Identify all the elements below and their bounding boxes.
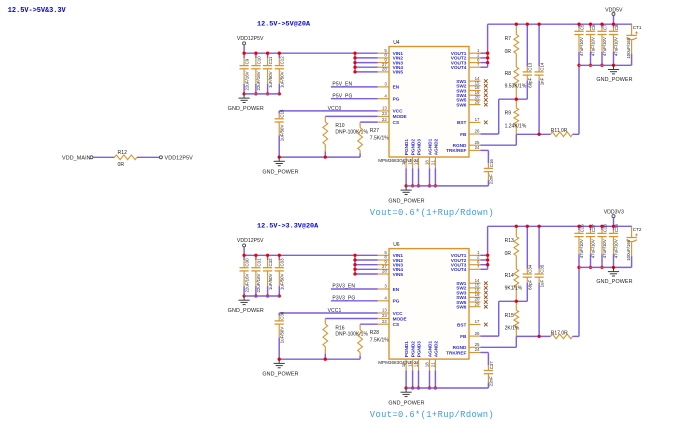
resistor R13 (515, 226, 517, 236)
svg-text:MODE: MODE (393, 316, 407, 321)
wire VCC1 net (279, 312, 378, 314)
svg-text:BST: BST (457, 120, 467, 125)
svg-text:2K/1%: 2K/1% (505, 326, 520, 332)
wire VOUT3 to bus (481, 264, 488, 266)
svg-text:VDD_MAIN: VDD_MAIN (62, 156, 91, 162)
wire agnd ground rail (406, 387, 488, 389)
pin 21 AGND2 of U4 (434, 157, 436, 168)
resistor R7 (515, 24, 517, 34)
pin 8 VIN2 of U4 (378, 57, 389, 59)
wire to VIN2 (355, 259, 378, 261)
svg-text:22nF: 22nF (489, 376, 494, 386)
pin 17 BST of U4 (469, 121, 481, 123)
pin 3 EN of U6 (378, 288, 389, 290)
junction VIN bus 1 (353, 52, 356, 55)
wire R11 to ground riser (573, 133, 579, 135)
wire VDD12P5V port to input rail (243, 45, 245, 53)
svg-text:100uF/16V: 100uF/16V (626, 239, 631, 261)
pin 12 PGND3 of U6 (418, 359, 420, 370)
pin 26 FB of U6 (469, 335, 481, 337)
svg-text:VIN5: VIN5 (393, 272, 404, 277)
resistor R16 (324, 319, 326, 324)
junction C28 bottom (600, 266, 603, 269)
pin 13 VCC of U6 (378, 312, 389, 314)
junction R10 bottom (324, 155, 327, 158)
svg-text:GND_POWER: GND_POWER (388, 198, 424, 204)
pin 9 VIN3 of U4 (378, 62, 389, 64)
capacitor C27 (590, 226, 592, 230)
wire VOUT3 to bus (481, 62, 488, 64)
svg-text:22: 22 (382, 117, 387, 122)
wire to VIN4 (355, 268, 378, 270)
svg-text:1nF: 1nF (539, 77, 544, 85)
svg-text:1uF/50V: 1uF/50V (280, 273, 285, 290)
junction C32 top (266, 254, 269, 257)
pin 5 VIN1 of U6 (378, 254, 389, 256)
junction C7 top (600, 23, 603, 26)
svg-text:C10: C10 (256, 56, 261, 65)
svg-text:C29: C29 (614, 224, 619, 233)
capacitor C14 (538, 24, 540, 66)
svg-text:AGND1: AGND1 (427, 340, 432, 357)
junction R16 bottom (324, 358, 327, 361)
svg-text:47uF/10V: 47uF/10V (602, 37, 607, 56)
pin 11 PGND2 of U6 (412, 359, 414, 370)
svg-text:47uF/10V: 47uF/10V (579, 239, 584, 258)
pin 28 VIN5 of U6 (378, 273, 389, 275)
junction VOUT bus (486, 254, 489, 257)
junction AGND2 ground (434, 184, 437, 187)
pin 28 VIN5 of U4 (378, 71, 389, 73)
junction C35 top (537, 225, 540, 228)
wire RGND to R9 bottom (481, 144, 517, 146)
svg-text:22uF/16V: 22uF/16V (256, 273, 261, 292)
pin 18 AGND1 of U6 (429, 359, 431, 370)
wire PGND2 to ground rail (412, 168, 414, 186)
capacitor C35 (538, 226, 540, 268)
ground vcc rail (278, 157, 280, 161)
svg-text:1.24K/1%: 1.24K/1% (505, 124, 527, 130)
svg-text:VDD12P5V: VDD12P5V (237, 238, 264, 244)
capacitor C34 (526, 226, 528, 268)
wire R17 to ground riser (573, 335, 579, 337)
capacitor C11 (267, 53, 269, 58)
pin 18 AGND1 of U4 (429, 157, 431, 168)
svg-text:0R: 0R (118, 162, 125, 168)
pin 8 VIN2 of U6 (378, 259, 389, 261)
svg-text:EN: EN (393, 85, 400, 90)
svg-text:26: 26 (475, 129, 480, 134)
wire PGND3 to ground rail (418, 168, 420, 186)
svg-text:VOUT4: VOUT4 (451, 267, 467, 272)
wire CS to R27 (360, 121, 378, 123)
svg-text:C13: C13 (528, 62, 533, 71)
capacitor C13 (526, 24, 528, 66)
junction AGND2 ground (434, 386, 437, 389)
capacitor CT2 (631, 226, 633, 237)
svg-text:VDD12P5V: VDD12P5V (237, 36, 264, 42)
port VDD5V (612, 13, 615, 16)
pin 20 SW5 of U4 (469, 99, 481, 101)
wire MODE to R16 (325, 318, 378, 320)
junction C11 top (266, 52, 269, 55)
wire to VIN5 (355, 273, 378, 275)
capacitor C15 (278, 111, 280, 114)
junction PGND2 ground (411, 386, 414, 389)
junction C9 bottom (242, 92, 245, 95)
svg-text:C16: C16 (489, 159, 494, 168)
svg-text:12: 12 (414, 362, 419, 367)
wire VIN bus vertical (354, 255, 356, 274)
svg-text:68pF: 68pF (528, 77, 533, 87)
svg-text:U6: U6 (393, 242, 400, 248)
svg-text:CT2: CT2 (633, 227, 642, 232)
svg-text:100uF/16V: 100uF/16V (626, 37, 631, 59)
junction VIN bus 5 (353, 70, 356, 73)
junction VOUT bus (486, 52, 489, 55)
svg-text:R27: R27 (370, 128, 379, 134)
svg-text:1uF/50V: 1uF/50V (268, 273, 273, 290)
svg-text:GND_POWER: GND_POWER (262, 372, 298, 378)
svg-text:PG: PG (393, 97, 400, 102)
pin 2 VOUT2 of U6 (469, 259, 481, 261)
svg-text:29: 29 (475, 301, 480, 306)
wire FB to riser (481, 133, 499, 135)
port VDD12P5V (R12 output) (159, 156, 162, 159)
pin 26 FB of U4 (469, 133, 481, 135)
wire R9 bottom drop (515, 336, 517, 347)
svg-text:12.5V->5V&3.3V: 12.5V->5V&3.3V (8, 7, 67, 15)
capacitor C16 (487, 150, 489, 163)
svg-text:22uF/16V: 22uF/16V (244, 71, 249, 90)
svg-text:17: 17 (475, 117, 480, 122)
junction C9 top (242, 52, 245, 55)
svg-text:C27: C27 (591, 224, 596, 233)
svg-text:R15: R15 (505, 313, 514, 319)
junction VIN bus 3 (353, 263, 356, 266)
svg-text:0R: 0R (505, 251, 512, 257)
junction VOUT bus (486, 61, 489, 64)
capacitor C12 (278, 53, 280, 58)
junction output gnd (612, 266, 615, 269)
svg-text:12.5V->3.3V@20A: 12.5V->3.3V@20A (257, 223, 319, 231)
wire to VIN3 (355, 62, 378, 64)
svg-text:AGND2: AGND2 (433, 138, 438, 155)
wire vcc ground rail (279, 358, 360, 360)
svg-text:47uF/10V: 47uF/10V (602, 239, 607, 258)
svg-text:7.5K/1%: 7.5K/1% (370, 135, 389, 141)
junction VIN bus 4 (353, 268, 356, 271)
pin 25 RGND of U6 (469, 346, 481, 348)
ground output caps (613, 65, 615, 69)
wire AGND2 to ground rail (434, 370, 436, 388)
resistor R15 (515, 301, 517, 310)
junction C5 bottom (577, 64, 580, 67)
pin 19 SW4 of U6 (469, 296, 481, 298)
svg-text:22nF: 22nF (489, 174, 494, 184)
svg-text:22: 22 (382, 319, 387, 324)
wire R9 bottom to R11 (516, 133, 550, 135)
wire AGND1 to ground rail (429, 168, 431, 186)
junction output gnd (612, 64, 615, 67)
pin 21 AGND2 of U6 (434, 359, 436, 370)
wire VOUT1 to bus (481, 254, 488, 256)
wire vcc ground rail (279, 156, 360, 158)
capacitor C7 (601, 24, 603, 28)
svg-text:1uF/50V: 1uF/50V (268, 71, 273, 88)
wire MODE to R10 (325, 115, 378, 117)
svg-text:68pF: 68pF (528, 279, 533, 289)
svg-text:C31: C31 (256, 258, 261, 267)
pin 7 VOUT4 of U4 (469, 66, 481, 68)
capacitor C9 (243, 53, 245, 58)
svg-text:C9: C9 (245, 58, 250, 64)
wire R12 to VDD12P5V (137, 156, 159, 158)
wire VDD3V3 port stem (613, 218, 615, 227)
svg-text:FB: FB (460, 132, 467, 137)
junction VOUT bus (486, 56, 489, 59)
wire VOUT2 to bus (481, 259, 488, 261)
svg-text:VDD12P5V: VDD12P5V (165, 156, 194, 162)
pin 23 MODE of U4 (378, 115, 389, 117)
junction VIN bus 5 (353, 272, 356, 275)
svg-text:EN: EN (393, 287, 400, 292)
svg-text:C30: C30 (245, 258, 250, 267)
pin 14 SW1 of U4 (469, 80, 481, 82)
pin 4 PG of U6 (378, 300, 389, 302)
junction C5 top (577, 23, 580, 26)
wire TRK/REF to C37 (481, 352, 489, 354)
junction C26 top (577, 225, 580, 228)
svg-text:GND_POWER: GND_POWER (262, 169, 298, 175)
svg-text:C35: C35 (540, 264, 545, 273)
svg-text:28: 28 (382, 269, 387, 274)
wire PGND1 to ground rail (405, 168, 407, 186)
svg-text:11: 11 (408, 160, 413, 165)
svg-text:9.53K/1%: 9.53K/1% (505, 83, 527, 89)
wire R8 bottom junction (499, 98, 528, 100)
pin 1 VOUT1 of U4 (469, 52, 481, 54)
junction C35 bottom (537, 335, 540, 338)
pin 17 BST of U6 (469, 324, 481, 326)
svg-text:C15: C15 (280, 109, 285, 118)
ground agnd rail (405, 388, 407, 392)
junction C13 top (526, 23, 529, 26)
wire VOUT bus vertical (487, 24, 489, 67)
wire output rail (488, 225, 632, 227)
resistor R17 (551, 334, 573, 339)
svg-text:DNP-100K/1%: DNP-100K/1% (335, 129, 368, 135)
pin 20 SW5 of U6 (469, 301, 481, 303)
svg-text:47uF/10V: 47uF/10V (591, 37, 596, 56)
svg-text:1uF/50V: 1uF/50V (280, 71, 285, 88)
wire output cap ground rail (579, 64, 632, 66)
wire FB riser (498, 99, 500, 134)
svg-text:10: 10 (401, 160, 406, 165)
svg-text:C37: C37 (489, 361, 494, 370)
wire output rail (488, 23, 632, 25)
svg-text:21: 21 (430, 160, 435, 165)
capacitor C6 (590, 24, 592, 28)
pin 16 SW3 of U6 (469, 292, 481, 294)
port VDD12P5V input (243, 42, 246, 45)
resistor R11 (551, 132, 573, 137)
junction C8 top (612, 23, 615, 26)
port VDD3V3 (612, 215, 615, 218)
junction R7 top (515, 23, 518, 26)
wire P3V3_PG to PG pin (331, 300, 378, 302)
pin 24 TRK/REF of U6 (469, 352, 481, 354)
junction C12 top (278, 52, 281, 55)
wire VOUT bus vertical (487, 226, 489, 269)
capacitor C26 (578, 226, 580, 230)
wire FB to riser (481, 335, 499, 337)
svg-text:21: 21 (430, 362, 435, 367)
pin 6 VOUT3 of U6 (469, 264, 481, 266)
pin 15 SW2 of U4 (469, 85, 481, 87)
wire R8 bottom junction (499, 300, 528, 302)
wire RGND to R9 bottom (481, 346, 517, 348)
svg-text:0R: 0R (505, 49, 512, 55)
port VDD_MAIN (90, 156, 93, 159)
svg-text:SW6: SW6 (456, 305, 467, 310)
junction C33 top (278, 254, 281, 257)
capacitor C33 (278, 255, 280, 260)
wire P5V_PG to PG pin (331, 98, 378, 100)
svg-text:C26: C26 (579, 224, 584, 233)
junction PGND3 ground (417, 184, 420, 187)
ground input caps (243, 296, 245, 300)
ground output caps (613, 267, 615, 271)
wire VOUT1 to bus (481, 52, 488, 54)
capacitor C29 (613, 226, 615, 230)
junction C15 bottom (278, 155, 281, 158)
junction R8/R9/FB (515, 300, 518, 303)
junction R8/R9/FB (515, 98, 518, 101)
wire P3V3_EN to EN pin (331, 288, 378, 290)
ground input caps (243, 94, 245, 98)
wire VOUT4 to bus (481, 268, 488, 270)
junction C27 top (589, 225, 592, 228)
svg-text:28: 28 (382, 67, 387, 72)
wire VDD12P5V port to input rail (243, 247, 245, 255)
svg-text:24: 24 (475, 347, 480, 352)
svg-text:C28: C28 (602, 224, 607, 233)
svg-text:13: 13 (382, 308, 387, 313)
capacitor C10 (255, 53, 257, 58)
svg-text:C11: C11 (268, 56, 273, 64)
wire AGND1 to ground rail (429, 370, 431, 388)
svg-text:13: 13 (382, 106, 387, 111)
pin 5 VIN1 of U4 (378, 52, 389, 54)
junction C36 bottom (278, 358, 281, 361)
pin 27 VIN4 of U4 (378, 66, 389, 68)
resistor R27 (359, 122, 361, 128)
svg-text:18: 18 (425, 160, 430, 165)
svg-text:CS: CS (393, 322, 400, 327)
wire agnd ground rail (406, 185, 488, 187)
wire to VIN2 (355, 57, 378, 59)
svg-text:GND_POWER: GND_POWER (596, 77, 632, 83)
junction VIN bus 2 (353, 258, 356, 261)
svg-text:C36: C36 (280, 311, 285, 320)
wire R9 bottom drop (515, 134, 517, 145)
wire input rail (244, 254, 378, 256)
wire to VIN4 (355, 66, 378, 68)
svg-text:PGND1: PGND1 (404, 341, 409, 358)
svg-text:U4: U4 (393, 40, 400, 46)
wire CS to R28 (360, 323, 378, 325)
wire PGND2 to ground rail (412, 370, 414, 388)
junction C31 bottom (254, 294, 257, 297)
pin 10 PGND1 of U4 (405, 157, 407, 168)
junction C6 bottom (589, 64, 592, 67)
svg-text:PGND3: PGND3 (416, 139, 421, 156)
junction VIN bus 4 (353, 66, 356, 69)
svg-text:23: 23 (382, 111, 387, 116)
capacitor CT1 (631, 24, 633, 35)
svg-text:R12: R12 (118, 150, 128, 156)
pin 3 EN of U4 (378, 86, 389, 88)
resistor R12 (115, 155, 138, 160)
svg-text:29: 29 (475, 99, 480, 104)
capacitor C37 (487, 353, 489, 366)
pin 19 SW4 of U4 (469, 94, 481, 96)
junction VOUT bus (486, 263, 489, 266)
junction PGND1 ground (404, 386, 407, 389)
svg-text:R9: R9 (505, 111, 512, 117)
svg-text:C14: C14 (540, 62, 545, 71)
svg-text:TRK/REF: TRK/REF (446, 148, 466, 153)
pin 10 PGND1 of U6 (405, 359, 407, 370)
svg-text:DNP-100K/1%: DNP-100K/1% (335, 332, 368, 338)
capacitor C31 (255, 255, 257, 260)
svg-text:18: 18 (425, 362, 430, 367)
resistor R8 (514, 67, 519, 86)
wire output cap ground rail (579, 266, 632, 268)
wire input cap ground rail (244, 295, 279, 297)
junction R13 top (515, 225, 518, 228)
svg-text:SW6: SW6 (456, 102, 467, 107)
pin 14 SW1 of U6 (469, 282, 481, 284)
svg-text:C34: C34 (528, 264, 533, 273)
svg-text:9K1/1%: 9K1/1% (505, 286, 523, 292)
junction C30 top (242, 254, 245, 257)
pin 6 VOUT3 of U4 (469, 62, 481, 64)
junction C10 top (254, 52, 257, 55)
svg-text:GND_POWER: GND_POWER (228, 308, 264, 314)
svg-text:1uF: 1uF (539, 279, 544, 287)
op-amp module U6 body (389, 249, 469, 360)
svg-text:R13: R13 (505, 238, 514, 244)
pin 22 CS of U6 (378, 323, 389, 325)
junction VIN bus 1 (353, 254, 356, 257)
svg-text:22uF/16V: 22uF/16V (244, 273, 249, 292)
svg-text:47uF/10V: 47uF/10V (614, 37, 619, 56)
svg-text:7.5K/1%: 7.5K/1% (370, 338, 389, 344)
junction C30 bottom (242, 294, 245, 297)
junction C32 bottom (266, 294, 269, 297)
pin 1 VOUT1 of U6 (469, 254, 481, 256)
svg-text:BST: BST (457, 322, 467, 327)
junction PGND2 ground (411, 184, 414, 187)
svg-text:CS: CS (393, 120, 400, 125)
svg-text:PGND1: PGND1 (404, 139, 409, 156)
svg-text:FB: FB (460, 334, 467, 339)
svg-text:R8: R8 (505, 71, 512, 77)
svg-text:PGND2: PGND2 (411, 341, 416, 358)
junction C7 bottom (600, 64, 603, 67)
